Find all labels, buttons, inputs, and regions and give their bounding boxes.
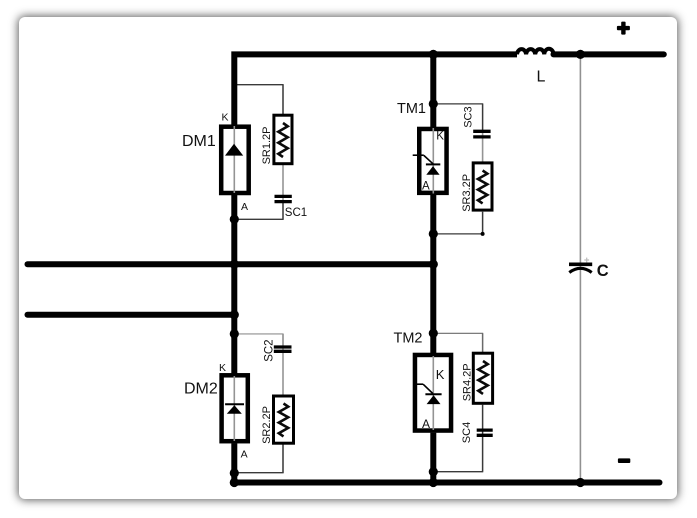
wire: AC input line 2 [28, 312, 235, 318]
svg-text:DM2: DM2 [184, 381, 218, 398]
svg-text:K: K [436, 367, 445, 382]
capacitor C polarized symbol [569, 258, 592, 273]
node: bottom rail / DM column junction [230, 478, 239, 487]
diode module DM2 box [222, 375, 248, 441]
resistor SR2.2P zigzag [279, 404, 288, 437]
node: input1 / TM column junction [429, 260, 438, 269]
capacitor SC3 [473, 131, 490, 137]
wire: DM2 snubber chain vertical [282, 334, 284, 473]
node: TM2 snubber top junction [429, 329, 438, 338]
resistor SR2.2P box [274, 396, 294, 443]
svg-text:L: L [537, 68, 546, 85]
wire: DM1 snubber chain vertical [282, 85, 284, 220]
label minus terminal [618, 458, 630, 463]
svg-text:C: C [597, 262, 609, 280]
wire: positive top rail with DM column upper segment [234, 54, 517, 124]
resistor SR4.2P zigzag [478, 361, 487, 394]
wire: TM2 snubber bottom connector [433, 405, 482, 472]
thyristor module TM1 box [419, 129, 446, 193]
wire: TM1 snubber top connector [433, 104, 482, 130]
node: top rail / TM column junction [429, 50, 438, 59]
thyristor TM2 symbol [416, 384, 442, 404]
wire: DM column bottom segment [231, 443, 237, 482]
svg-text:A: A [241, 201, 248, 213]
diode DM1 symbol [225, 144, 243, 156]
wire: TM column top segment [430, 54, 436, 127]
resistor SR3.2P box [473, 163, 492, 210]
wire: DM1 internal [233, 126, 235, 193]
node: TM2 snubber bottom junction [429, 467, 438, 476]
thyristor module TM2 box [415, 355, 451, 431]
wire: capacitor C branch vertical [579, 56, 581, 481]
svg-text:SC1: SC1 [285, 207, 307, 219]
wire: TM1 snubber bottom connector [433, 212, 482, 234]
thyristor TM1 symbol [413, 155, 441, 175]
svg-text:SR2.2P: SR2.2P [261, 406, 273, 444]
resistor SR4.2P box [473, 353, 492, 403]
svg-text:TM2: TM2 [394, 331, 423, 347]
node: input2 / DM column junction [230, 310, 239, 319]
wire: DM2 snubber top connector [234, 334, 283, 346]
svg-text:A: A [422, 417, 430, 431]
node: DM2 snubber bottom junction [230, 468, 239, 477]
svg-text:K: K [222, 112, 229, 124]
resistor SR1.2P zigzag [278, 123, 287, 157]
capacitor SC2 [274, 347, 292, 351]
svg-text:SR3.2P: SR3.2P [461, 174, 473, 212]
wire: TM2 snubber chain vertical [482, 333, 484, 471]
node: bottom rail / C branch junction [576, 478, 585, 487]
wire: TM2 internal [432, 356, 434, 430]
wire: DM1 snubber bottom connector [234, 202, 283, 219]
wire: TM1 snubber chain vertical [482, 104, 484, 234]
node: DM2 snubber top junction [230, 329, 239, 338]
node: TM1 snubber top junction [429, 99, 438, 108]
svg-text:DM1: DM1 [182, 133, 216, 150]
wire: DM column middle segment [231, 195, 237, 374]
svg-text:A: A [241, 448, 248, 460]
svg-text:K: K [219, 362, 226, 374]
svg-text:SC4: SC4 [461, 422, 473, 443]
wire: TM column bottom segment [430, 433, 436, 483]
wire: DM1 snubber top connector [234, 85, 283, 114]
node: DM1 snubber bottom junction [230, 215, 239, 224]
resistor SR3.2P zigzag [478, 171, 487, 204]
diode module DM1 box [221, 127, 249, 193]
capacitor SC4 [477, 430, 493, 435]
resistor SR1.2P box [274, 115, 292, 164]
svg-text:TM1: TM1 [397, 101, 426, 117]
svg-text:SC2: SC2 [264, 339, 276, 361]
wire: DM2 snubber bottom connector [234, 444, 283, 473]
diode DM2 symbol [225, 404, 244, 414]
node: top rail / C branch junction [576, 50, 585, 59]
wire: DM2 internal [233, 376, 235, 441]
label plus terminal [617, 22, 630, 35]
svg-text:SR4.2P: SR4.2P [461, 363, 473, 401]
svg-text:K: K [436, 130, 444, 142]
wire: TM2 snubber top connector [433, 333, 482, 352]
wire: top rail right of inductor [554, 51, 664, 57]
node: TM1 snubber bottom junction [429, 229, 438, 238]
wire: TM column middle segment [430, 195, 436, 353]
node: input1 / DM column cross junction [230, 260, 239, 269]
capacitor SC1 [275, 196, 292, 201]
node: bottom rail / TM column junction [429, 478, 438, 487]
svg-text:SC3: SC3 [463, 106, 475, 127]
wire: negative bottom rail [234, 480, 659, 486]
svg-text:A: A [422, 180, 430, 192]
node: TM1 snubber corner junction [481, 232, 485, 236]
wire: TM1 internal [432, 128, 434, 194]
inductor L [517, 49, 554, 55]
wire: AC input line 1 [28, 261, 434, 267]
svg-text:SR1.2P: SR1.2P [261, 126, 273, 164]
